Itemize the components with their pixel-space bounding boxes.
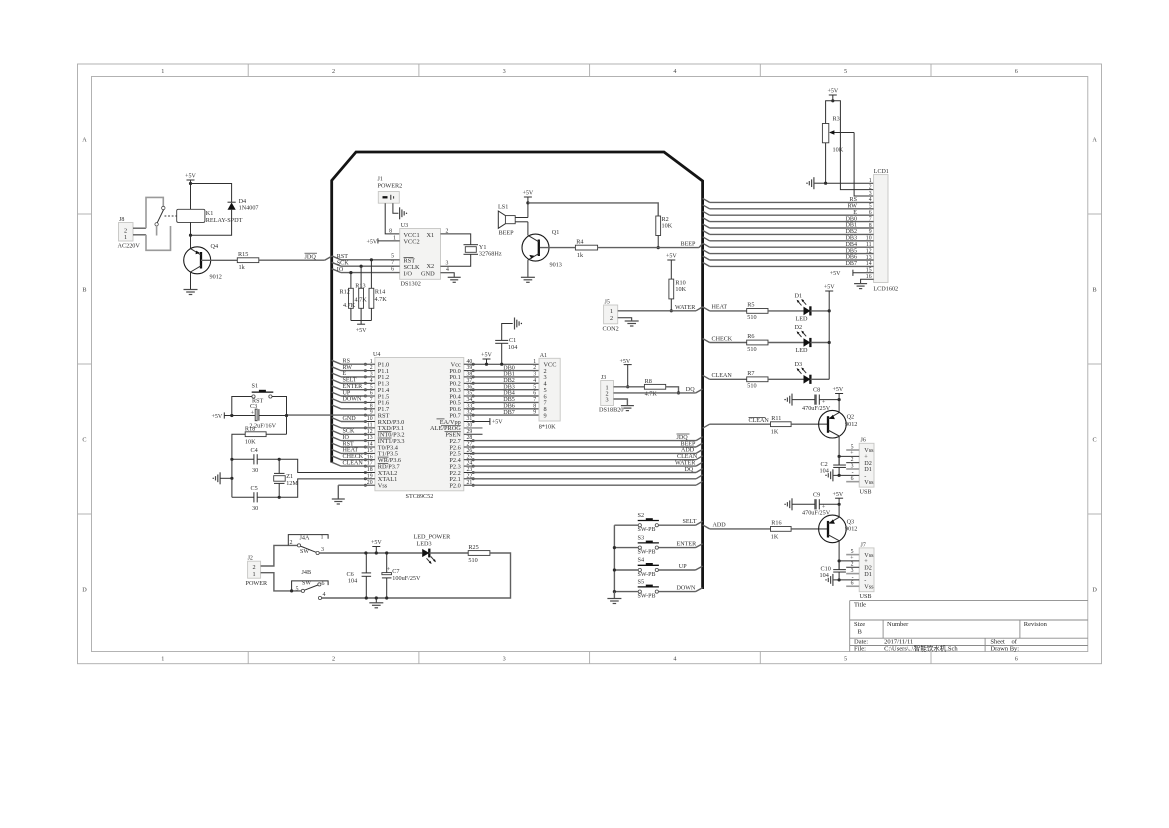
svg-text:100uF/25V: 100uF/25V (392, 575, 421, 582)
power +5V (pull-ups, downward) (356, 321, 367, 334)
power +5V (LCD pin 15) (830, 270, 874, 277)
svg-text:A: A (82, 137, 87, 144)
wire to U4 pin 17 net CLEAN (332, 460, 367, 466)
wire U4 ALE stub (464, 427, 483, 429)
svg-text:2: 2 (869, 184, 872, 190)
svg-text:+5V: +5V (620, 359, 631, 365)
svg-text:4: 4 (323, 592, 326, 598)
svg-text:ADD: ADD (681, 448, 695, 454)
svg-text:3: 3 (446, 261, 449, 267)
transistor Q1 9013 (522, 229, 562, 269)
svg-text:5: 5 (844, 68, 847, 75)
U4 pin 35 (P0.4) (449, 391, 474, 401)
wire to U4 pin 15 net HEAT (332, 448, 367, 454)
svg-text:B: B (1093, 287, 1097, 294)
ground (R3, rotated) (806, 177, 825, 189)
ground (C9, rotated) (784, 498, 815, 510)
svg-text:Q3: Q3 (847, 518, 855, 525)
svg-text:+5V: +5V (371, 540, 382, 546)
svg-text:E: E (343, 371, 347, 377)
wire node to Q4 emitter (190, 235, 192, 248)
svg-text:LS1: LS1 (498, 204, 508, 211)
U4 pin 10 (RXD/P3.0) (364, 416, 404, 426)
wire J7 + pin (838, 559, 860, 562)
resistor R2 10K (656, 216, 673, 236)
wire D3 to +5V rail (810, 378, 829, 380)
svg-text:DS18B20: DS18B20 (599, 406, 623, 413)
svg-text:S3: S3 (638, 534, 645, 541)
svg-text:R16: R16 (771, 520, 781, 527)
connector J7 USB (846, 542, 874, 600)
svg-text:1: 1 (161, 655, 164, 662)
wire U4 P2.7 to bus net JDQ (472, 434, 702, 441)
wire to U4 pin 13 net IO (332, 435, 367, 441)
svg-text:30: 30 (252, 467, 258, 474)
transistor Q2 9012 (819, 410, 858, 438)
ground (LCD) (854, 284, 867, 289)
switch S1 (reset) (252, 382, 274, 398)
svg-text:1: 1 (869, 178, 872, 184)
LCD1 pin 15 (866, 268, 872, 274)
svg-text:CLEAN: CLEAN (677, 454, 698, 460)
U4 pin 20 (Vss) (364, 480, 387, 490)
U4 pin 6 (P1.5) (364, 391, 389, 401)
svg-text:X1: X1 (427, 232, 435, 239)
svg-text:+5V: +5V (830, 271, 841, 277)
svg-text:10K: 10K (662, 223, 673, 230)
svg-text:3: 3 (869, 191, 872, 197)
title block texts (854, 602, 1048, 653)
svg-text:DB6: DB6 (845, 255, 857, 261)
wire R7 to D3 (768, 378, 804, 380)
svg-text:DB7: DB7 (503, 410, 515, 416)
wire J3 pin 1 to R8 (614, 386, 645, 388)
resistor R18 10K (245, 425, 266, 445)
U4 pin 15 (T1/P3.5) (364, 448, 398, 458)
wire J8 pin 1 (133, 234, 146, 236)
svg-text:S1: S1 (252, 382, 259, 389)
wire net CLEAN from bus (703, 373, 747, 379)
svg-text:IO: IO (343, 435, 350, 441)
capacitor C4 30 (251, 447, 259, 474)
wire to U4 pin 16 net CHECK (332, 454, 367, 460)
svg-text:RW: RW (848, 204, 858, 210)
svg-text:12M: 12M (286, 480, 298, 487)
svg-text:+5V: +5V (367, 239, 378, 245)
wire net HEAT from bus (703, 305, 747, 311)
svg-text:35: 35 (467, 391, 473, 397)
U4 pin 21 (P2.0) (449, 480, 474, 490)
svg-text:6: 6 (533, 391, 536, 397)
wire S3 left (614, 547, 638, 549)
svg-text:STC89C52: STC89C52 (406, 493, 434, 500)
U4 pin 23 (P2.2) (449, 467, 474, 477)
ground (Q1) (521, 277, 535, 282)
svg-text:R15: R15 (238, 251, 248, 258)
svg-text:104: 104 (820, 468, 829, 475)
wire crystal bottom to U4 XTAL1 (279, 479, 366, 497)
wire S1 left branch (232, 397, 252, 416)
sheet border inner frame (92, 77, 1088, 652)
capacitor C8 470uF/25V (802, 387, 831, 412)
wire U4 Vcc to A1 pin 1 (472, 363, 539, 365)
svg-text:+5V: +5V (492, 420, 503, 426)
svg-text:34: 34 (467, 397, 473, 403)
relay K1 pole contact (162, 206, 165, 209)
IC U3 DS1302 (400, 223, 441, 288)
svg-text:510: 510 (747, 314, 756, 321)
wire R16 to Q3 base (791, 528, 828, 530)
svg-text:SCK: SCK (337, 261, 349, 267)
svg-text:JDQ: JDQ (305, 253, 317, 260)
switch J4B (292, 569, 329, 593)
transistor Q4 9012 (184, 243, 222, 281)
svg-text:4: 4 (370, 378, 373, 384)
transistor Q3 9012 (819, 515, 858, 543)
U4 pin 11 (TXD/P3.1) (364, 423, 404, 433)
wire to U4 pin 7 net DOWN (332, 397, 367, 403)
svg-text:3: 3 (503, 68, 506, 75)
svg-text:R14: R14 (375, 288, 385, 295)
svg-text:DB0: DB0 (503, 365, 515, 371)
svg-text:2: 2 (332, 68, 335, 75)
wire R18 left down to crystal rail (232, 434, 245, 459)
svg-text:SW: SW (300, 549, 309, 555)
svg-text:+5V: +5V (481, 353, 492, 359)
svg-text:1k: 1k (577, 252, 584, 259)
power +5V (Q1) (523, 191, 534, 205)
capacitor C10 104 (820, 566, 846, 580)
switch S5 SW-PB (638, 578, 659, 599)
wire net DB0 P0.0 to A1 pin 2 (472, 365, 539, 371)
connector J1 POWER2 (378, 177, 403, 204)
wire collector rail through C10 (838, 561, 841, 582)
svg-text:DB2: DB2 (503, 378, 515, 384)
svg-text:9: 9 (533, 410, 536, 416)
resistor R7 510 (747, 370, 768, 390)
U4 pin 26 (P2.5) (449, 448, 474, 458)
wire R8 to DQ net (666, 387, 680, 395)
wire U4 P2.4 to bus net CLEAN (472, 454, 702, 460)
svg-text:P2.0: P2.0 (449, 483, 460, 490)
svg-text:9012: 9012 (845, 421, 857, 428)
wire D1 to +5V rail (810, 309, 830, 312)
wire S5 left (614, 591, 638, 593)
svg-text:HEAT: HEAT (712, 305, 728, 311)
svg-text:DB7: DB7 (845, 261, 857, 267)
svg-text:8: 8 (389, 228, 392, 234)
svg-text:23: 23 (467, 467, 473, 473)
svg-text:Drawn By:: Drawn By: (990, 645, 1019, 652)
U4 pin 24 (P2.3) (449, 461, 474, 471)
U4 pin 4 (P1.3) (364, 378, 389, 388)
LED D1 (795, 292, 811, 322)
svg-text:+5V: +5V (824, 285, 835, 291)
LED LED3 LED_POWER (414, 533, 452, 564)
connector J3 DS18B20 (599, 375, 623, 413)
svg-text:SELT: SELT (683, 519, 697, 525)
svg-text:18: 18 (367, 467, 373, 473)
crystal Y1 32768Hz (464, 244, 502, 258)
U4 pin 34 (P0.5) (449, 397, 474, 407)
svg-text:104: 104 (348, 578, 357, 585)
wire net ENTER to bus (658, 541, 702, 547)
svg-text:WATER: WATER (675, 305, 696, 311)
svg-text:D2: D2 (795, 324, 803, 331)
svg-text:1: 1 (610, 308, 613, 315)
svg-text:38: 38 (467, 372, 473, 378)
svg-text:AC220V: AC220V (118, 243, 141, 250)
svg-text:File:: File: (854, 645, 866, 652)
U4 pin 13 (INT1/P3.3) (364, 435, 404, 445)
svg-text:32: 32 (467, 410, 473, 416)
wire D2 to +5V rail (810, 341, 830, 344)
svg-text:2: 2 (446, 228, 449, 234)
svg-text:21: 21 (467, 480, 473, 486)
svg-text:1: 1 (321, 534, 324, 540)
svg-text:SW-PB: SW-PB (638, 527, 656, 533)
svg-text:POWER: POWER (246, 580, 269, 587)
svg-text:40: 40 (467, 359, 473, 365)
svg-text:2: 2 (533, 365, 536, 371)
wire +5V rail to R2 (528, 203, 658, 216)
svg-text:1N4007: 1N4007 (239, 204, 259, 211)
svg-text:DB5: DB5 (845, 248, 857, 254)
svg-text:4.7K: 4.7K (375, 296, 388, 303)
svg-text:R4: R4 (576, 239, 583, 246)
svg-text:R7: R7 (747, 370, 754, 377)
svg-text:CLEAN: CLEAN (712, 373, 733, 379)
svg-text:USB: USB (860, 489, 872, 496)
svg-text:2: 2 (332, 655, 335, 662)
wire +5V to C3 (224, 414, 255, 417)
wire to U4 pin 6 net UP (332, 390, 367, 396)
svg-text:DB1: DB1 (845, 223, 857, 229)
resistor R25 510 (468, 544, 490, 564)
U4 pin 22 (P2.1) (449, 473, 474, 483)
wire U4 P2.3 to bus net WATER (472, 460, 702, 466)
U4 pin 1 (P1.0) (364, 359, 389, 369)
ground (C1, rotated) (515, 318, 523, 330)
svg-text:SW-PB: SW-PB (638, 572, 656, 578)
U4 pin 2 (P1.1) (364, 365, 389, 375)
svg-text:20: 20 (367, 480, 373, 486)
svg-text:510: 510 (747, 346, 756, 353)
switch J4A (288, 534, 328, 555)
connector J2 POWER (246, 556, 269, 587)
wire J5 pin 2 to ground (618, 318, 632, 321)
wire to U4 pin 2 net RW (332, 365, 367, 371)
resistor R4 1k (575, 239, 597, 259)
wire net DB3 P0.3 to A1 pin 5 (472, 384, 539, 390)
svg-text:LED3: LED3 (417, 541, 432, 548)
svg-text:36: 36 (467, 384, 473, 390)
svg-text:7: 7 (370, 397, 373, 403)
wire S4 left (614, 569, 638, 571)
capacitor C1 104 (495, 337, 517, 351)
U4 pin 3 (P1.2) (364, 372, 389, 382)
svg-text:6: 6 (1015, 655, 1018, 662)
wire C4 left (230, 458, 254, 461)
switch S4 SW-PB (638, 557, 659, 578)
wire J1 pin to U3 VCC1 pin 8 (385, 203, 400, 234)
svg-text:1: 1 (161, 68, 164, 75)
LCD1 pin 2 (869, 184, 872, 190)
svg-text:R12: R12 (340, 288, 350, 295)
wire C4 right to crystal top (257, 458, 281, 461)
svg-text:S2: S2 (638, 512, 645, 519)
svg-text:+5V: +5V (185, 174, 196, 180)
wire net IO to U3 pin 6 (332, 267, 400, 275)
svg-text:10K: 10K (833, 146, 844, 153)
wire LS1 bottom pin to Q1 collector (515, 222, 528, 236)
svg-text:1: 1 (252, 571, 255, 578)
wire C3 to U4 RST pin (259, 415, 287, 417)
svg-text:9013: 9013 (550, 262, 562, 269)
wire to U4 pin 4 net SELT (332, 378, 367, 384)
LCD1 pin 5 net RW (703, 204, 874, 210)
LCD1 pin 3 (869, 191, 872, 197)
svg-text:RST: RST (343, 441, 354, 447)
svg-text:UP: UP (679, 564, 687, 570)
svg-text:Revision: Revision (1024, 621, 1048, 628)
svg-text:SELT: SELT (343, 378, 357, 384)
U4 pin 19 (XTAL1) (364, 473, 397, 483)
wire R6 to D2 (768, 342, 804, 344)
ground (J5) (625, 321, 639, 326)
wire +5V to U3 pin 1 (378, 235, 400, 241)
svg-text:J4A: J4A (300, 534, 311, 541)
svg-text:CHECK: CHECK (712, 336, 733, 342)
IC U4 STC89C52 body (373, 352, 464, 500)
U4 pin 28 (P2.7) (449, 435, 474, 445)
svg-text:I/O: I/O (404, 270, 413, 277)
relay K1 blade (157, 210, 163, 223)
svg-text:J6: J6 (861, 438, 866, 444)
ground (switch rail) (607, 599, 621, 604)
wire to U4 pin 11 (332, 424, 367, 428)
resistor network A1 8*10K (539, 353, 561, 430)
LED D3 (795, 361, 811, 384)
svg-text:ADD: ADD (713, 523, 727, 529)
wire net SELT to bus (658, 519, 702, 525)
svg-text:Q4: Q4 (211, 243, 219, 250)
svg-text:5: 5 (370, 384, 373, 390)
svg-text:C5: C5 (251, 485, 258, 492)
svg-text:POWER2: POWER2 (378, 183, 403, 190)
resistor R10 10K (669, 279, 687, 299)
svg-text:510: 510 (747, 383, 756, 390)
svg-text:10: 10 (367, 416, 373, 422)
power +5V (relay) (187, 179, 195, 181)
svg-text:U3: U3 (401, 223, 408, 229)
svg-text:LCD1602: LCD1602 (873, 285, 898, 292)
resistor R15 1k (237, 251, 258, 271)
capacitor C2 104 (820, 461, 846, 475)
connector J5 CON2 (603, 299, 619, 332)
svg-text:BEEP: BEEP (499, 230, 515, 237)
svg-text:SCK: SCK (343, 429, 355, 435)
svg-text:1k: 1k (239, 264, 246, 271)
wire collector rail through C2 (838, 456, 841, 477)
wire Q3 collector rail (838, 541, 840, 570)
wire R5 to D1 (768, 310, 804, 312)
U4 pin 40 (Vcc) (451, 359, 475, 369)
LCD1 pin 4 net RS (703, 197, 874, 203)
wire U3 X1 pin 2 to crystal (441, 228, 471, 244)
U4 pin 8 (P1.7) (364, 403, 389, 413)
U4 pin 30 (ALE/PROG) (430, 423, 472, 433)
U4 pin 5 (P1.4) (364, 384, 390, 394)
resistor R11 1K (771, 415, 792, 436)
LCD1 pin 9 net DB2 (703, 229, 874, 235)
svg-text:12: 12 (367, 429, 373, 435)
svg-text:13: 13 (367, 435, 373, 441)
svg-text:4: 4 (533, 378, 536, 384)
wire Q1 base to R4 (540, 247, 575, 249)
relay K1 contact frame lower (146, 226, 171, 250)
svg-text:D1: D1 (795, 292, 803, 299)
resistor R5 510 (747, 301, 768, 321)
svg-text:Title: Title (854, 602, 866, 609)
svg-text:C4: C4 (251, 447, 258, 454)
svg-text:37: 37 (467, 378, 473, 384)
svg-text:4.7K: 4.7K (355, 296, 368, 303)
svg-text:DB6: DB6 (503, 404, 515, 410)
svg-text:10K: 10K (675, 286, 686, 293)
power +5V (U4 Vcc) (481, 353, 492, 366)
svg-text:6: 6 (1015, 68, 1018, 75)
svg-text:LCD1: LCD1 (874, 169, 889, 175)
svg-text:Vss: Vss (378, 483, 388, 490)
svg-text:D: D (82, 587, 87, 594)
svg-text:R3: R3 (833, 115, 840, 122)
svg-text:4: 4 (673, 655, 676, 662)
wire Q1 emitter to ground (527, 260, 529, 277)
LCD1 pin 11 net DB4 (703, 242, 874, 248)
svg-text:4: 4 (673, 68, 676, 75)
svg-text:9012: 9012 (845, 526, 857, 533)
wire LED3 to R25 (429, 552, 468, 554)
svg-text:B: B (858, 629, 863, 636)
svg-text:DQ: DQ (686, 387, 695, 393)
wire R15 to bus, net JDQ (259, 253, 332, 260)
svg-text:8: 8 (370, 403, 373, 409)
svg-text:Q1: Q1 (552, 229, 560, 236)
svg-text:+5V: +5V (827, 89, 838, 95)
svg-text:RS: RS (343, 359, 351, 365)
wire U4 Vss pin 20 to ground (338, 485, 366, 499)
svg-text:4.7K: 4.7K (645, 391, 658, 398)
capacitor C9 470uF/25V (802, 491, 831, 516)
wire LS1 top pin (515, 203, 528, 218)
svg-text:2: 2 (610, 315, 613, 322)
relay K1 contact frame upper (146, 197, 163, 228)
svg-text:1K: 1K (771, 533, 779, 540)
capacitor C3 2.2uF/16V (249, 403, 276, 430)
LED D2 (795, 324, 811, 354)
svg-text:11: 11 (367, 423, 373, 429)
svg-text:16: 16 (367, 454, 373, 460)
svg-text:26: 26 (467, 448, 473, 454)
svg-text:28: 28 (467, 435, 473, 441)
svg-text:22: 22 (467, 473, 473, 479)
svg-text:+5V: +5V (523, 191, 534, 197)
wire C9 to +5V (819, 503, 839, 505)
wire net SCK to U3 pin 7 (332, 260, 400, 268)
ground (C10, rotated) (825, 574, 833, 586)
svg-text:C9: C9 (813, 491, 820, 498)
